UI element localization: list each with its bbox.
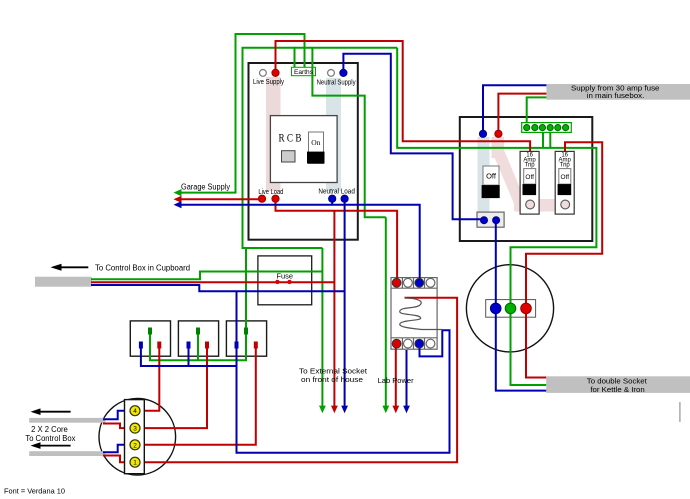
svg-text:Trip: Trip [560, 162, 571, 168]
svg-text:Trip: Trip [525, 162, 536, 168]
svg-text:Garage Supply: Garage Supply [181, 183, 230, 192]
svg-text:in main fusebox.: in main fusebox. [587, 91, 645, 100]
svg-text:R C B: R C B [279, 133, 302, 145]
svg-text:3: 3 [133, 426, 137, 433]
svg-text:On: On [311, 138, 320, 147]
svg-text:Live Supply: Live Supply [253, 79, 284, 86]
svg-text:Off: Off [486, 172, 497, 181]
svg-text:Fuse: Fuse [277, 272, 294, 281]
svg-text:for Kettle & Iron: for Kettle & Iron [590, 385, 644, 394]
svg-text:To Control Box: To Control Box [25, 434, 75, 443]
svg-text:Lab Power: Lab Power [378, 376, 415, 385]
svg-text:2: 2 [133, 442, 137, 449]
svg-text:Off: Off [561, 174, 570, 181]
svg-text:on front of house: on front of house [301, 375, 363, 384]
svg-text:1: 1 [133, 460, 137, 467]
svg-text:2 X 2 Core: 2 X 2 Core [31, 425, 68, 434]
svg-text:4: 4 [133, 408, 137, 415]
svg-text:Live Load: Live Load [258, 189, 283, 196]
svg-text:To Control Box in Cupboard: To Control Box in Cupboard [95, 263, 190, 272]
svg-text:Neutral Supply: Neutral Supply [317, 80, 356, 87]
svg-text:Earths: Earths [294, 69, 314, 76]
svg-text:Font = Verdana 10: Font = Verdana 10 [4, 487, 65, 496]
svg-text:Off: Off [525, 174, 534, 181]
svg-text:To External Socket: To External Socket [299, 367, 368, 376]
svg-text:Neutral Load: Neutral Load [318, 189, 355, 196]
